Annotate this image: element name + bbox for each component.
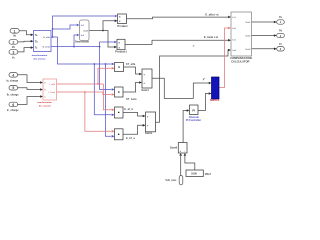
svg-text:Ia_charge: Ia_charge [6,80,18,83]
svg-text:E_beta: E_beta [43,46,51,49]
svg-text:Out1: Out1 [245,21,251,24]
svg-text:CALCULATOR: CALCULATOR [231,59,249,63]
svg-text:Ib_charge: Ib_charge [7,93,19,96]
svg-text:+: + [143,81,145,85]
svg-text:6: 6 [12,103,14,107]
svg-text:Out2: Out2 [245,35,251,38]
svg-text:Determinant: Determinant [75,40,89,43]
svg-text:-: - [184,149,185,153]
svg-text:+: + [147,114,149,118]
svg-text:PI: PI [192,109,195,113]
svg-text:des tension: des tension [33,58,46,61]
svg-text:+: + [143,72,145,76]
svg-text:E_af_b: E_af_b [124,107,133,111]
svg-text:E_beta i-st: E_beta i-st [204,35,218,39]
svg-text:des courant: des courant [39,104,51,107]
svg-text:Vb: Vb [12,46,16,49]
svg-text:2: 2 [12,40,14,44]
svg-text:VRef: VRef [205,172,211,176]
svg-text:PI Controller: PI Controller [186,119,201,122]
svg-text:Sum4: Sum4 [141,88,149,92]
svg-text:E_bf_a: E_bf_a [126,136,135,140]
svg-text:E_alfa i-st: E_alfa i-st [205,13,218,17]
svg-text:Sum6: Sum6 [170,145,178,149]
svg-text:Product: Product [117,24,127,28]
svg-text:Sum11: Sum11 [210,98,220,102]
svg-text:4: 4 [12,73,14,77]
svg-text:Product1: Product1 [115,49,127,53]
svg-text:Out1: Out1 [83,30,89,33]
svg-text:5: 5 [12,86,14,90]
svg-text:I_beta: I_beta [48,91,55,94]
svg-text:I_alfa: I_alfa [49,84,56,86]
svg-text:Sum1: Sum1 [145,131,153,135]
svg-text:ST_beta: ST_beta [126,97,137,101]
svg-text:p*: p* [203,78,205,81]
svg-text:transformation: transformation [37,101,52,104]
svg-text:+: + [147,124,149,128]
svg-text:1: 1 [14,29,16,33]
svg-text:3: 3 [12,50,14,54]
svg-text:ST_alfa: ST_alfa [126,62,136,66]
svg-text:Pb: Pb [279,30,283,33]
svg-text:Out3: Out3 [245,48,251,51]
svg-text:1000: 1000 [191,172,197,176]
svg-text:transformation: transformation [32,54,48,57]
svg-text:Ic_charge: Ic_charge [7,109,19,112]
svg-text:Vdc_mes: Vdc_mes [165,179,177,182]
svg-text:E_alfa: E_alfa [43,37,50,39]
svg-text:i*: i* [193,45,195,48]
